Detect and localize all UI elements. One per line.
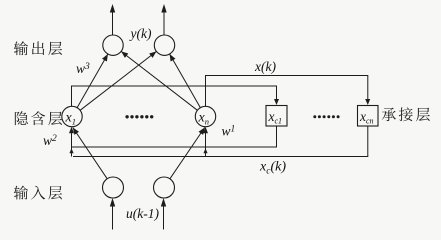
output node O2 bbox=[154, 35, 174, 55]
svg-text:xc(k): xc(k) bbox=[259, 160, 286, 177]
ellipsis dots hidden layer bbox=[125, 115, 128, 118]
wire xn to O2 bbox=[170, 54, 201, 108]
wire x1 to O2 bbox=[80, 51, 156, 110]
wire xc1 feedback to hidden layer (upper) bbox=[72, 126, 277, 147]
input node I1 bbox=[103, 177, 124, 198]
context box xcn bbox=[358, 106, 379, 127]
wire I2 to xn bbox=[170, 128, 205, 179]
layer label 承接层 (context layer) bbox=[382, 107, 430, 121]
output arrow from O1 bbox=[112, 9, 114, 35]
wire I1 to x1 bbox=[73, 128, 107, 179]
wire x1 to O1 bbox=[77, 54, 108, 108]
hidden node x1 bbox=[62, 106, 82, 126]
wire xn to O1 bbox=[121, 51, 197, 110]
feedback arrow into x1 bbox=[71, 131, 73, 157]
svg-text:y(k): y(k) bbox=[129, 26, 152, 41]
wire xcn feedback to hidden layer (lower) bbox=[73, 126, 368, 157]
input node I2 bbox=[154, 177, 175, 198]
feedback arrow into xn bbox=[205, 131, 207, 157]
ellipsis dots context layer bbox=[313, 115, 316, 118]
wire x(k): xn to box xcn bbox=[206, 76, 368, 107]
svg-text:x(k): x(k) bbox=[254, 59, 276, 74]
layer label 输出层 (output layer) bbox=[14, 41, 62, 55]
layer label 隐含层 (hidden layer) bbox=[15, 111, 62, 125]
hidden node xn bbox=[195, 106, 215, 126]
layer label 输入层 (input layer) bbox=[14, 186, 62, 200]
input arrow into I2 bbox=[163, 203, 165, 230]
svg-text:u(k-1): u(k-1) bbox=[126, 206, 159, 221]
input arrow into I1 bbox=[112, 203, 114, 230]
context box xc1 bbox=[266, 106, 287, 127]
output node O1 bbox=[103, 35, 123, 55]
wire x1 to box xc1 bbox=[72, 86, 277, 106]
output arrow from O2 bbox=[163, 9, 165, 35]
